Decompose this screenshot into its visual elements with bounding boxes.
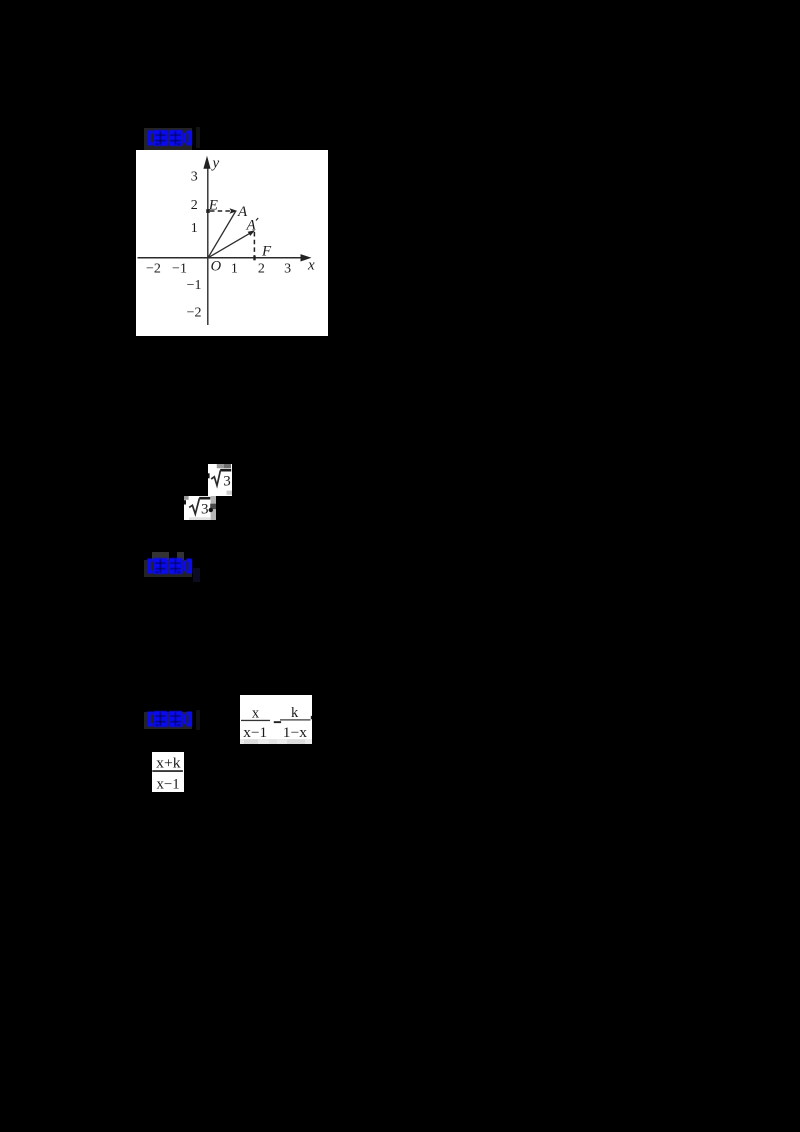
svg-text:2: 2 — [258, 262, 265, 277]
svg-text:E: E — [208, 198, 218, 214]
fraction image (x+k)/(x-1) — [152, 752, 184, 792]
segment O to A' — [208, 231, 254, 258]
coordinate graph image — [136, 150, 328, 336]
svg-text:3: 3 — [191, 170, 198, 185]
svg-text:−2: −2 — [187, 305, 202, 320]
fraction image x/(x-1) - k/(1-x) — [240, 695, 312, 744]
x-axis — [138, 257, 305, 259]
dashed segment E to A — [210, 210, 230, 212]
blue label 1 【解答】 — [144, 128, 192, 151]
svg-text:3: 3 — [223, 473, 231, 489]
svg-text:F: F — [261, 244, 272, 260]
sqrt(3) image A — [208, 464, 232, 496]
sqrt(3) image B — [184, 496, 216, 520]
faint dark glyph after label 2 — [193, 568, 200, 582]
svg-text:1−x: 1−x — [283, 725, 308, 741]
svg-text:x: x — [252, 706, 260, 722]
svg-text:3: 3 — [284, 262, 291, 277]
svg-text:−1: −1 — [172, 262, 187, 277]
svg-text:y: y — [211, 156, 220, 172]
svg-text:x−1: x−1 — [243, 725, 267, 741]
x-axis arrowhead — [301, 254, 312, 261]
tick at F on axis — [253, 256, 255, 261]
svg-text:3: 3 — [201, 502, 209, 518]
svg-text:A: A — [246, 218, 257, 234]
svg-text:1: 1 — [191, 221, 198, 236]
svg-text:x−1: x−1 — [157, 776, 180, 792]
segment O to A — [208, 212, 236, 258]
y-axis — [207, 164, 209, 325]
svg-text:k: k — [291, 705, 299, 721]
svg-text:−2: −2 — [146, 262, 161, 277]
svg-text:2: 2 — [191, 198, 198, 213]
faint mark after label 1 — [196, 127, 200, 148]
svg-text:1: 1 — [231, 262, 238, 277]
svg-text:−1: −1 — [187, 278, 202, 293]
arrowhead at A — [230, 208, 238, 214]
dashed segment A' to F — [253, 232, 255, 256]
svg-text:x: x — [307, 258, 315, 274]
arrowhead at A' — [248, 230, 255, 236]
blue label 2 【点评】 — [152, 552, 169, 560]
svg-text:O: O — [211, 259, 222, 275]
svg-text:x+k: x+k — [156, 756, 181, 772]
blue label 3 【解答】 — [144, 712, 192, 729]
y-axis arrowhead — [203, 156, 210, 169]
dot at E — [206, 209, 210, 213]
faint mark after label 3 — [196, 710, 200, 730]
